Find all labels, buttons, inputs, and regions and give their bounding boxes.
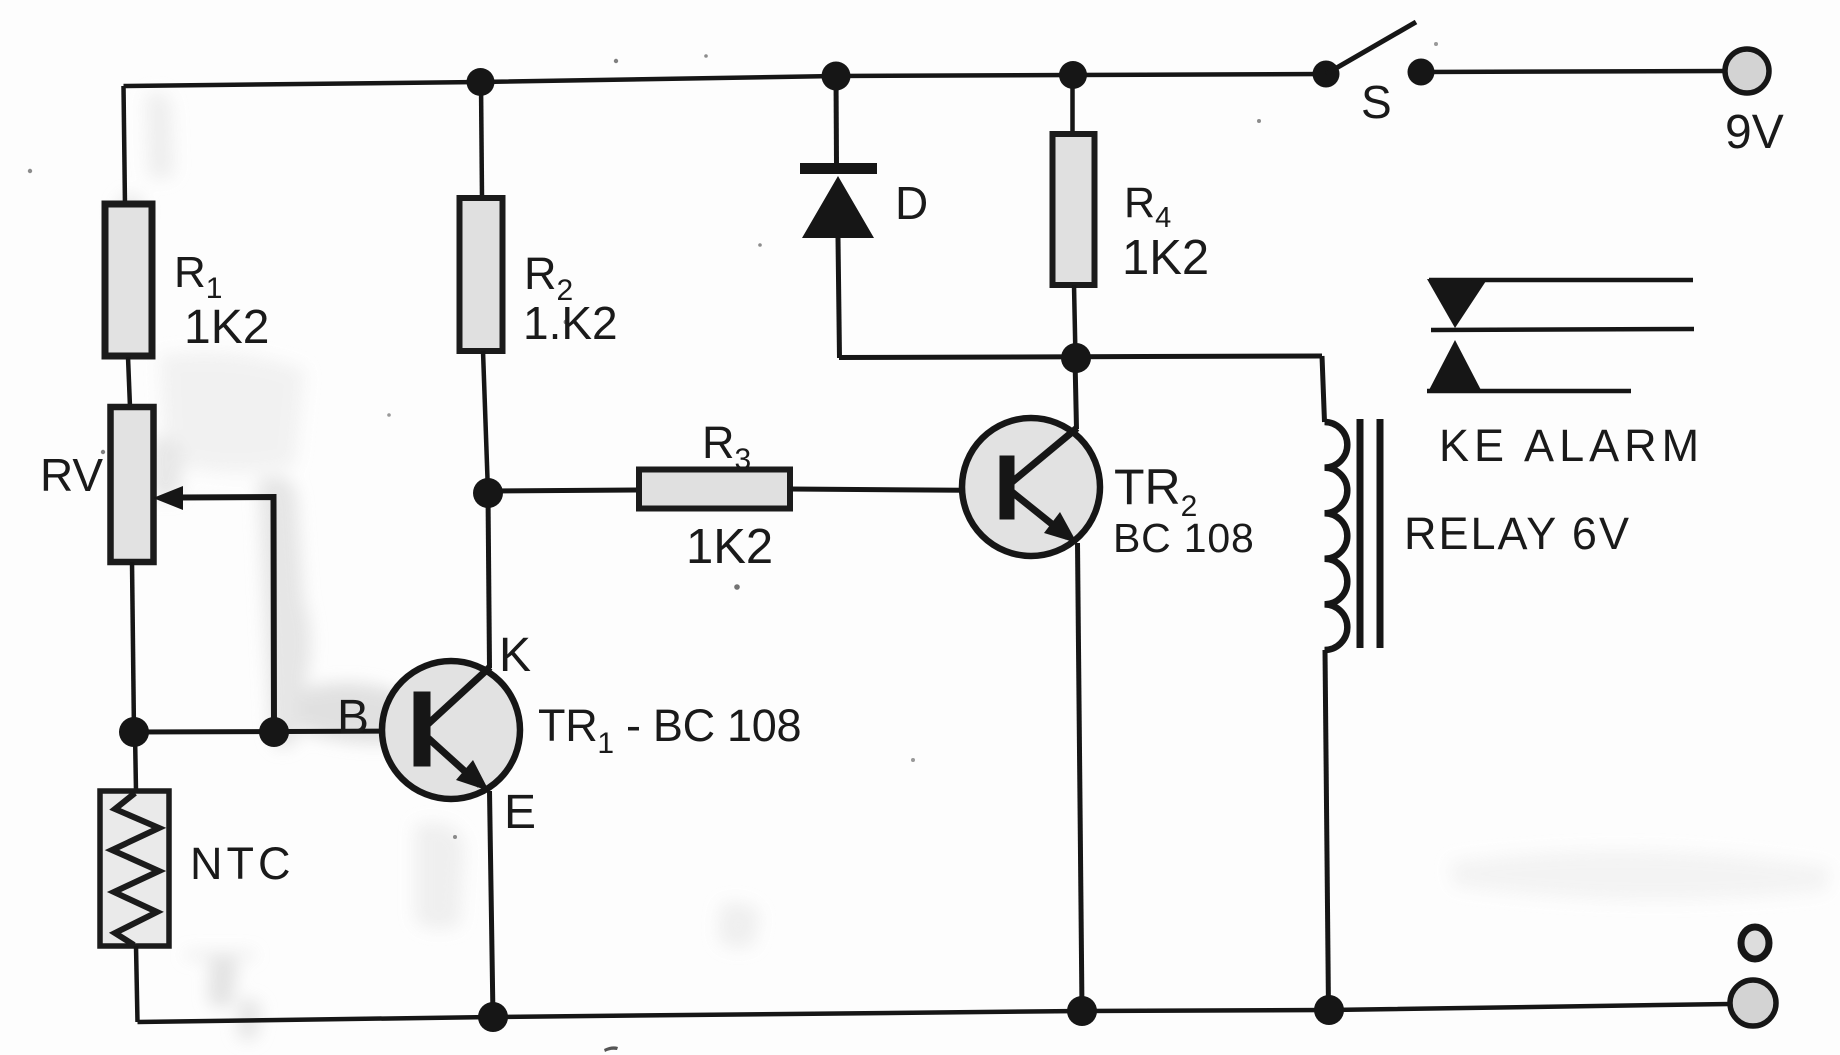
wire top rail	[124, 74, 1327, 86]
relay core bar 1	[1357, 419, 1364, 648]
wire RV wiper	[153, 486, 274, 732]
wire TR1 collector	[488, 493, 490, 668]
wire diode to relay (horizontal)	[839, 356, 1322, 358]
wire TR2 collector	[1075, 359, 1077, 429]
svg-text:B: B	[337, 691, 369, 744]
svg-text:BC 108: BC 108	[1113, 515, 1255, 561]
transistor TR2	[962, 418, 1100, 556]
diode D	[800, 76, 877, 358]
thermistor NTC	[100, 791, 169, 946]
svg-text:KE ALARM: KE ALARM	[1439, 420, 1704, 471]
svg-text:RV: RV	[40, 449, 103, 501]
alarm contact upper triangle	[1427, 279, 1486, 328]
resistor R4	[1053, 134, 1095, 285]
terminal 9V	[1725, 49, 1769, 93]
wire switch to 9V terminal	[1421, 71, 1726, 72]
relay coil L1	[1325, 422, 1348, 650]
svg-text:S: S	[1361, 76, 1392, 128]
svg-text:9V: 9V	[1725, 106, 1784, 159]
alarm contact lower triangle	[1428, 340, 1482, 392]
node R4 top	[1059, 61, 1087, 89]
node bottom TR1 emitter	[478, 1002, 508, 1032]
alarm contact symbol top line	[1429, 278, 1693, 283]
wire top to R2	[481, 82, 482, 198]
wire base TR1	[134, 731, 416, 732]
wire coil to bottom rail	[1325, 650, 1329, 1010]
potentiometer RV	[111, 407, 154, 562]
wire TR2 emitter	[1078, 543, 1083, 1011]
svg-text:1K2: 1K2	[184, 301, 269, 354]
svg-text:D: D	[895, 177, 928, 229]
wire R2 to node	[483, 351, 488, 493]
terminal output	[1730, 980, 1776, 1026]
resistor R3	[639, 470, 790, 509]
wire RV to node	[132, 562, 134, 733]
wire left column top	[124, 86, 126, 206]
node bottom relay	[1314, 995, 1344, 1025]
switch S	[1313, 22, 1435, 88]
wire node to R3	[488, 490, 639, 491]
relay core bar 2	[1377, 419, 1384, 648]
svg-text:1K2: 1K2	[686, 520, 773, 574]
wire top to R4	[1070, 75, 1075, 134]
svg-text:E: E	[504, 786, 536, 839]
transistor TR1	[382, 661, 520, 799]
wire R3 to TR2 base	[790, 489, 1001, 491]
alarm contact middle line	[1431, 329, 1694, 330]
resistor R2	[460, 198, 503, 351]
resistor R1	[105, 204, 152, 356]
node R2/R3/TR1 collector	[473, 478, 503, 508]
wire to relay coil	[1322, 356, 1325, 422]
wire node to NTC	[135, 733, 136, 791]
svg-text:NTC: NTC	[190, 838, 294, 889]
wire R1 to RV	[128, 357, 130, 407]
wire TR1 emitter	[490, 791, 494, 1017]
node B (wiper/base junction)	[259, 717, 289, 747]
node R2 top	[467, 68, 495, 96]
svg-text:1K2: 1K2	[1122, 231, 1209, 285]
alarm contact bottom line	[1427, 389, 1631, 394]
wire NTC to bottom rail	[136, 946, 138, 1022]
terminal output ring	[1741, 927, 1769, 959]
svg-text:K: K	[499, 629, 531, 682]
wire bottom rail	[138, 1004, 1731, 1022]
node bottom TR2 emitter	[1067, 996, 1097, 1026]
node R4 bottom	[1061, 343, 1091, 373]
node A (RV/NTC/base junction)	[119, 717, 149, 747]
wire R4 to node	[1074, 285, 1076, 358]
svg-text:1.K2: 1.K2	[523, 297, 618, 349]
svg-text:RELAY 6V: RELAY 6V	[1404, 508, 1631, 559]
node diode top	[822, 62, 851, 91]
